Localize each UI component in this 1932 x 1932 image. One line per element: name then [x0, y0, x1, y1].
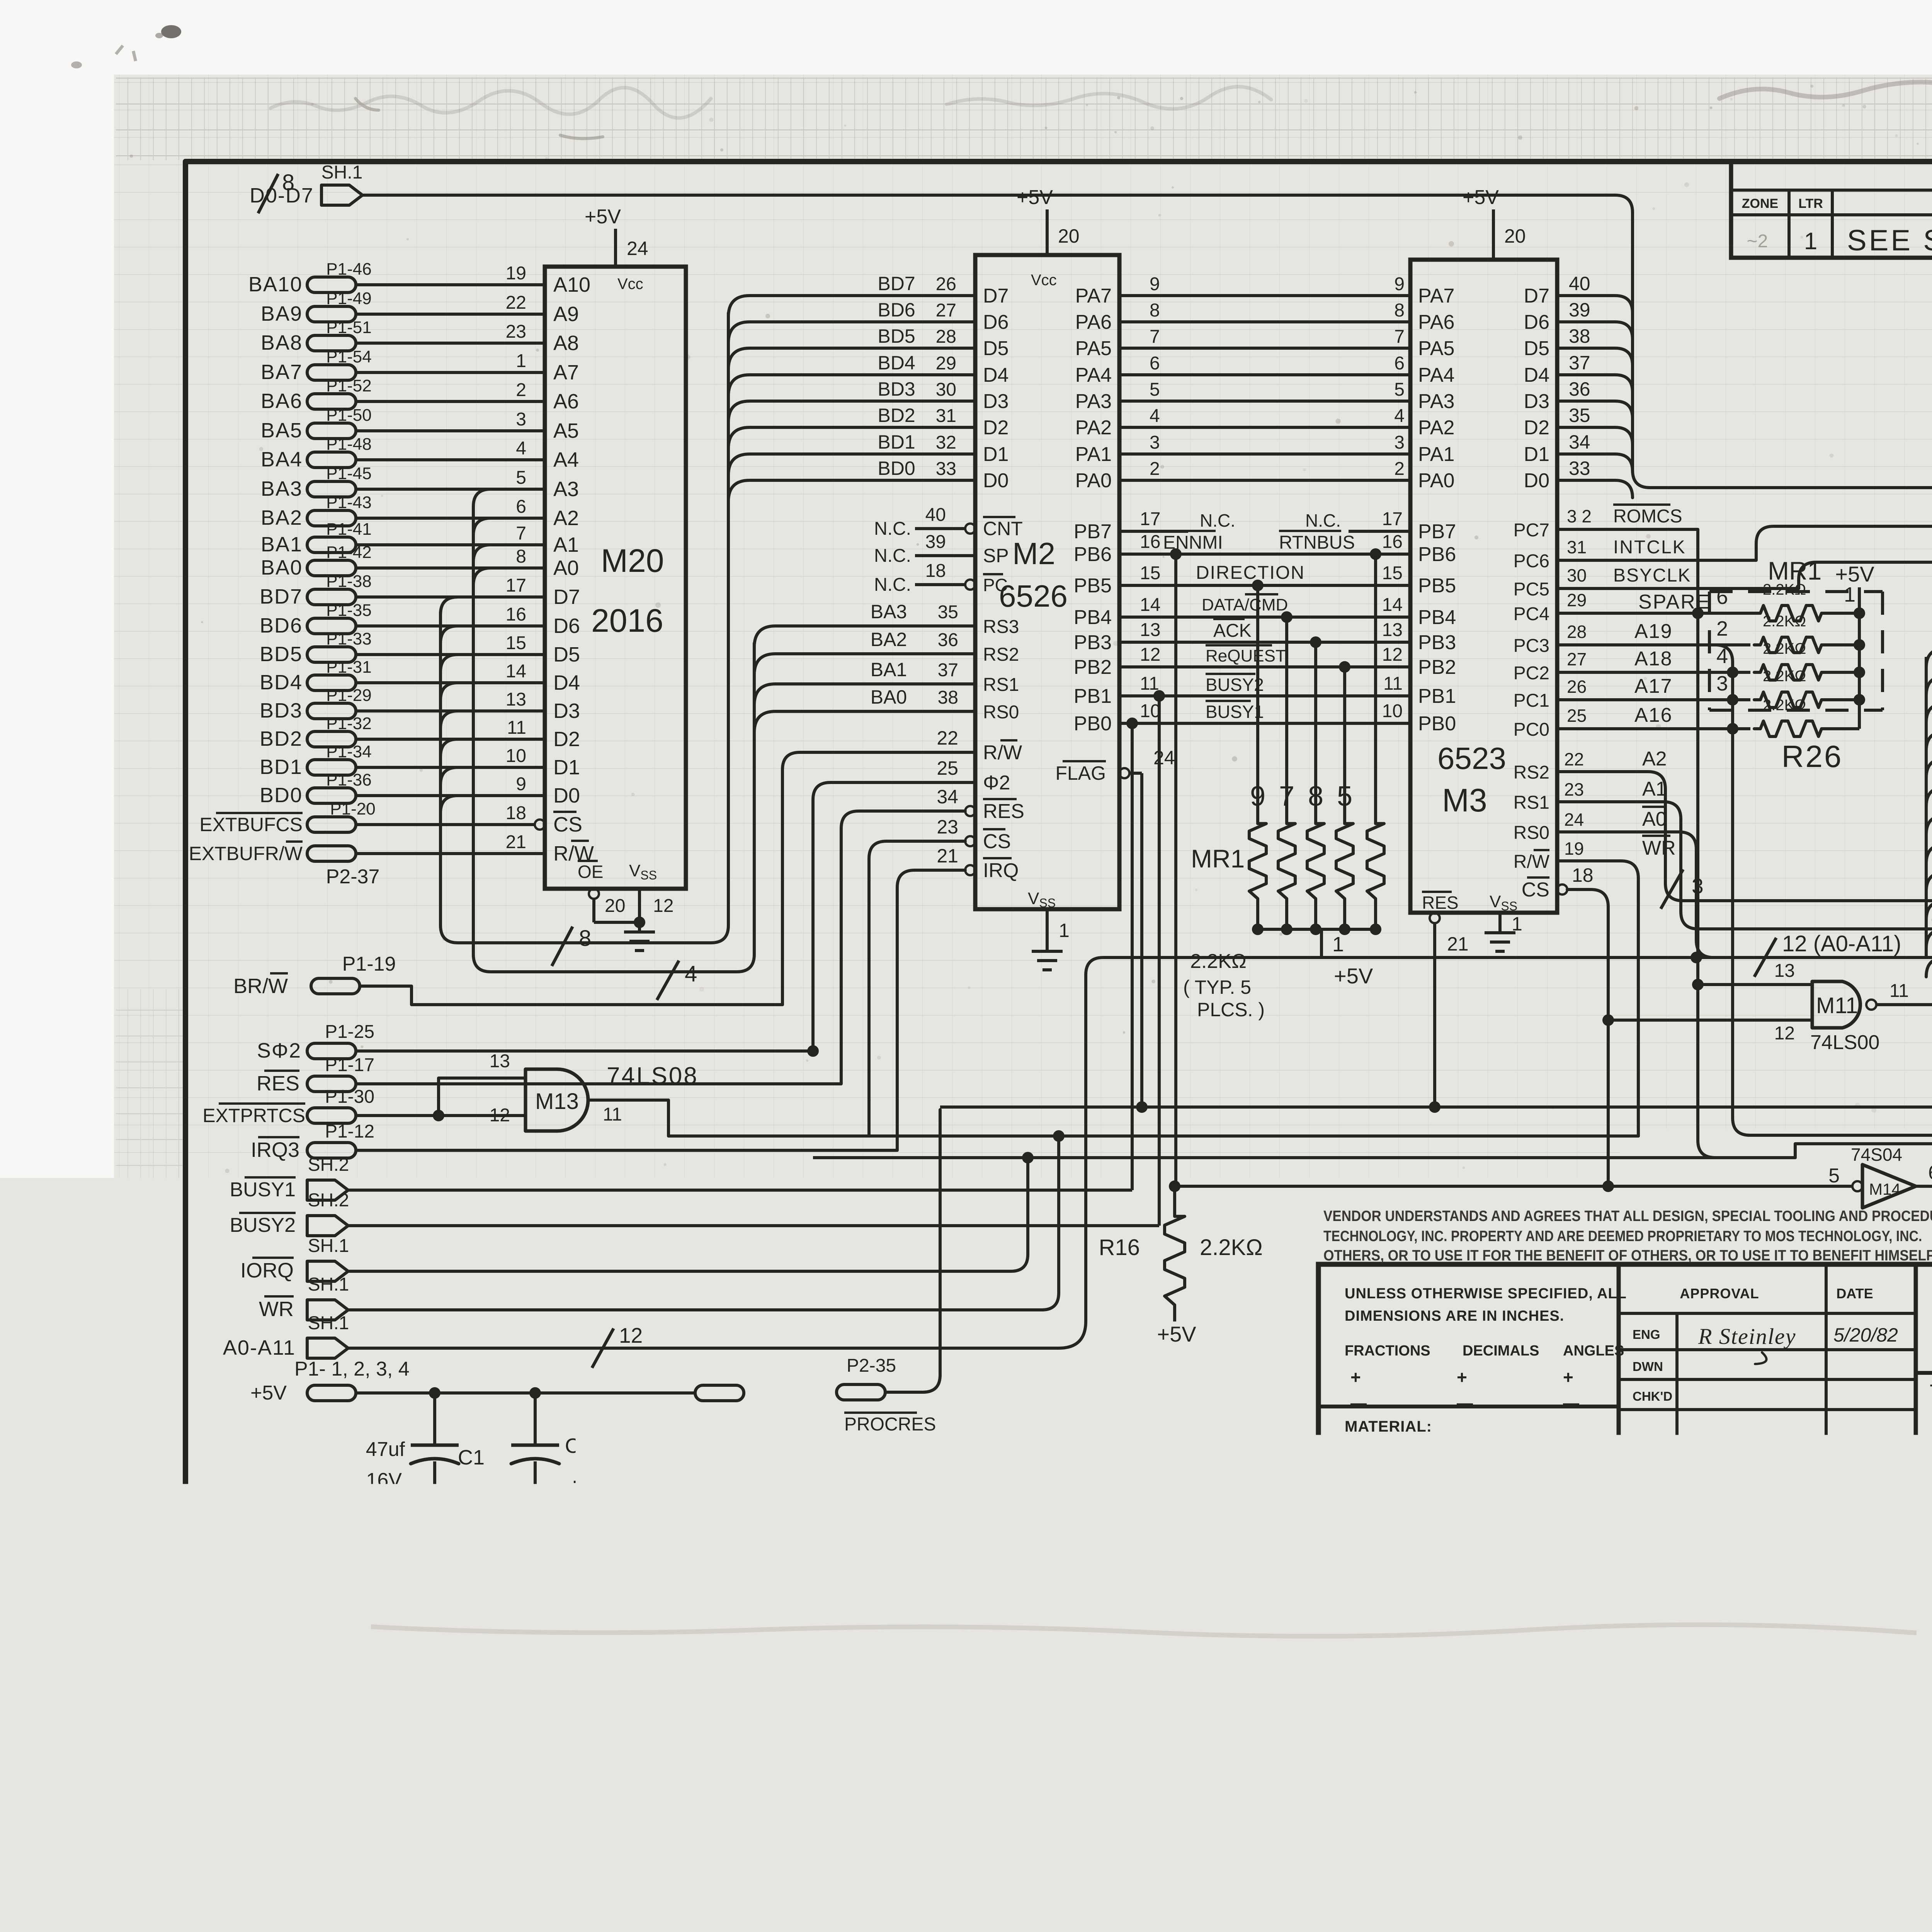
svg-text:~2: ~2 — [1747, 231, 1768, 252]
svg-text:26: 26 — [1567, 677, 1587, 697]
wire BA3 to M20 pin 5 — [356, 468, 545, 489]
svg-text:D2: D2 — [1524, 417, 1549, 439]
svg-text:RS0: RS0 — [983, 702, 1019, 723]
svg-text:PA5: PA5 — [1418, 337, 1454, 360]
size and drawing number cells — [1916, 1471, 1932, 1551]
svg-text:otherwise specified.: otherwise specified. — [1008, 1538, 1207, 1560]
wire A17 from M3 to R26 pack — [1557, 675, 1750, 700]
wire A2 A1 A0 from M3 to M4 address pins — [1557, 748, 1932, 901]
svg-text:16: 16 — [506, 604, 526, 625]
svg-text:1: 1 — [1059, 920, 1070, 941]
svg-text:CHK'D: CHK'D — [1633, 1389, 1672, 1403]
power +5V to M2 pin 20 — [1017, 186, 1080, 255]
svg-text:D7: D7 — [983, 285, 1009, 307]
flag BUSY2 from SH.2 — [230, 1190, 349, 1236]
flag D0-D7 to SH.1 (top left) — [250, 162, 362, 207]
svg-text:13: 13 — [506, 689, 526, 710]
wire to M2 pin 34 — [841, 786, 975, 1084]
svg-text:23: 23 — [506, 321, 526, 342]
svg-text:D3: D3 — [983, 390, 1009, 413]
wire net column to MR1 resistor at x=3255 — [1256, 585, 1259, 816]
svg-text:A1: A1 — [553, 533, 579, 556]
svg-text:A3: A3 — [553, 478, 579, 501]
bus width slash 12 (A0-A11) — [1754, 931, 1901, 977]
svg-text:+5V: +5V — [1334, 964, 1373, 988]
svg-text:5: 5 — [1150, 379, 1160, 400]
svg-text:PB7: PB7 — [1418, 520, 1456, 543]
svg-text:33: 33 — [936, 459, 956, 479]
wire M2 PA2 to M3 PA2 — [1119, 406, 1410, 427]
svg-text:38: 38 — [938, 687, 958, 708]
wire address bus to M4 A5 pin 3 — [1926, 794, 1932, 835]
svg-text:36: 36 — [1569, 378, 1590, 400]
svg-text:PC7: PC7 — [1514, 520, 1549, 541]
wire address bus to M4 A8 pin 23 — [1926, 711, 1932, 751]
svg-text:VENDOR UNDERSTANDS AND AGREES: VENDOR UNDERSTANDS AND AGREES THAT ALL D… — [1323, 1208, 1932, 1225]
svg-text:P1-30: P1-30 — [325, 1087, 374, 1107]
svg-text:27: 27 — [1567, 649, 1587, 669]
svg-text:13: 13 — [1140, 620, 1160, 640]
engineer signature R Steinley 5/20/82 — [1698, 1324, 1898, 1364]
connector P1-34 signal BD1 — [260, 742, 372, 779]
connector P1-17 signal RES — [257, 1055, 374, 1095]
svg-text:9: 9 — [516, 774, 526, 794]
svg-text:SH.2: SH.2 — [308, 1190, 349, 1211]
svg-text:P1-42: P1-42 — [326, 543, 371, 562]
wire BA5 to M20 pin 3 — [356, 409, 545, 431]
scale and sheet cells — [1926, 1551, 1932, 1578]
wire N.C. to M2 pin 39 — [874, 532, 975, 566]
svg-text:P1-48: P1-48 — [326, 435, 371, 454]
svg-text:BD3: BD3 — [878, 378, 915, 400]
svg-text:16V: 16V — [366, 1469, 402, 1492]
svg-text:22: 22 — [1564, 749, 1584, 769]
svg-text:M2: M2 — [1012, 536, 1055, 571]
wire M2 PB5 to M3 PB5 net DIRECTION — [1119, 563, 1410, 585]
wire BD bus loop (8 lines) from connectors up to M2 — [440, 313, 728, 943]
svg-text:6523: 6523 — [1437, 741, 1506, 776]
wire BD1 to M2 D1 pin 32 — [728, 431, 975, 475]
connector P1-42 signal BA0 — [261, 543, 372, 579]
tolerance box: unless otherwise specified — [1318, 1286, 1627, 1435]
svg-text:D3: D3 — [553, 699, 580, 723]
bus width slash 4 on BA loop — [657, 961, 679, 1000]
svg-text:34: 34 — [937, 786, 958, 808]
connector P1-35 signal BD6 — [260, 601, 372, 637]
M3 VSS pin 1 ground — [1500, 913, 1522, 935]
ground symbol below M3 — [1485, 931, 1515, 934]
wire BD7 to M20 pin 17 — [356, 575, 545, 597]
svg-text:3: 3 — [1150, 432, 1160, 453]
svg-text:PB6: PB6 — [1418, 543, 1456, 566]
svg-text:FRACTIONS: FRACTIONS — [1345, 1343, 1430, 1359]
svg-text:11: 11 — [507, 718, 526, 738]
svg-text:D4: D4 — [983, 364, 1009, 386]
svg-text:32: 32 — [936, 432, 956, 453]
svg-text:D4: D4 — [553, 671, 580, 694]
svg-text:GND: GND — [242, 1523, 287, 1546]
inverter M14 74S04 — [1828, 1145, 1932, 1208]
svg-text:39: 39 — [925, 532, 946, 552]
svg-text:N.C.: N.C. — [874, 575, 911, 595]
svg-text:SH.1: SH.1 — [308, 1313, 349, 1333]
svg-text:9: 9 — [1150, 274, 1160, 294]
svg-text:BD1: BD1 — [878, 431, 915, 453]
junction R26 common — [1854, 694, 1865, 706]
wire M11 output pin 11 to M4 CS1 pin 20 — [1876, 981, 1932, 1010]
wire BD7 to M2 D7 pin 26 — [728, 273, 975, 317]
svg-text:4: 4 — [516, 438, 526, 459]
power +5V to M3 pin 20 — [1463, 186, 1526, 260]
wire GND rail — [356, 1532, 695, 1536]
wire INTCLK from M3 PC6 pin 31 — [1557, 526, 1932, 560]
svg-text:P1-31: P1-31 — [326, 658, 371, 677]
wire ENNMI column from M2 PB6 — [1174, 554, 1177, 1186]
svg-text:PB2: PB2 — [1074, 656, 1112, 679]
svg-text:10: 10 — [506, 746, 526, 766]
svg-text:4: 4 — [1150, 406, 1160, 426]
resistor MR1 element 3 2.2K — [1307, 781, 1324, 929]
svg-text:BA3: BA3 — [871, 601, 907, 622]
svg-text:PC2: PC2 — [1514, 663, 1549, 684]
bus width slash 8 top left — [258, 174, 278, 213]
connector P1-48 signal BA4 — [261, 435, 372, 471]
connector P1-52 signal BA6 — [261, 376, 372, 413]
svg-text:35: 35 — [938, 602, 958, 622]
svg-text:R/W: R/W — [983, 742, 1022, 764]
svg-text:1: 1 — [1804, 228, 1817, 255]
svg-text:PA7: PA7 — [1418, 285, 1454, 307]
svg-text:2: 2 — [516, 380, 526, 400]
junction ENNMI column — [1170, 548, 1182, 560]
wire N.C. to M2 pin 18 — [874, 561, 975, 595]
resistor MR1 element 1 2.2K — [1249, 781, 1266, 929]
wire M2 PA5 to M3 PA5 — [1119, 327, 1410, 348]
svg-text:39: 39 — [1569, 299, 1590, 321]
svg-text:SEE SHEET 1.: SEE SHEET 1. — [1847, 224, 1932, 257]
svg-text:PB4: PB4 — [1418, 606, 1456, 629]
wire SPARE from M3 PC4 pin 29 — [1557, 590, 1711, 613]
svg-text:P1-25: P1-25 — [325, 1022, 374, 1042]
svg-text:5: 5 — [1337, 781, 1352, 812]
svg-text:11: 11 — [1889, 981, 1909, 1001]
svg-text:WR: WR — [1642, 837, 1676, 859]
svg-text:DECIMALS: DECIMALS — [1463, 1343, 1539, 1359]
svg-text:BUSY2: BUSY2 — [1206, 675, 1264, 695]
svg-text:D3: D3 — [1524, 390, 1549, 413]
svg-text:PA3: PA3 — [1418, 390, 1454, 413]
svg-text:BA6: BA6 — [261, 389, 303, 413]
svg-text:P1-52: P1-52 — [326, 376, 371, 395]
connector P1-46 signal BA10 — [248, 260, 372, 296]
wire EXTBUFCS to M20 CS pin 18 — [356, 803, 535, 825]
wire address bus to M4 A4 pin 4 — [1926, 823, 1932, 864]
svg-text:TECHNOLOGY, INC. PROPERTY AND: TECHNOLOGY, INC. PROPERTY AND ARE DEEMED… — [1323, 1228, 1932, 1245]
svg-text:P1-36: P1-36 — [326, 770, 371, 789]
svg-text:SCALE: SCALE — [1926, 1556, 1932, 1573]
svg-text:10: 10 — [1382, 701, 1403, 721]
connector P1-54 signal BA7 — [261, 347, 372, 384]
flag IORQ from SH.1 — [240, 1236, 349, 1282]
junction — [1310, 636, 1321, 648]
svg-text:P1-43: P1-43 — [326, 493, 371, 512]
svg-text:C2- C21: C2- C21 — [565, 1434, 643, 1458]
wire address bus to M4 A11 pin 18 — [1926, 628, 1932, 668]
wire BD2 to M2 D2 pin 31 — [728, 405, 975, 449]
M3 RES pin 21 — [1430, 913, 1469, 1110]
svg-text:BA2: BA2 — [261, 506, 303, 529]
svg-text:13: 13 — [490, 1051, 510, 1071]
svg-text:N.C.: N.C. — [874, 546, 911, 566]
wire M2 PB7 to M3 PB7 — [1119, 509, 1410, 531]
svg-text:26: 26 — [936, 274, 956, 294]
svg-text:7: 7 — [1279, 781, 1294, 812]
svg-text:3: 3 — [516, 409, 526, 430]
svg-text:RS2: RS2 — [1514, 762, 1549, 783]
svg-text:6: 6 — [1150, 353, 1160, 374]
svg-text:2.2KΩ: 2.2KΩ — [1763, 668, 1806, 685]
svg-text:D1: D1 — [553, 756, 580, 779]
svg-text:40: 40 — [925, 505, 946, 525]
svg-text:PB5: PB5 — [1074, 575, 1112, 597]
svg-text:Φ2: Φ2 — [983, 772, 1010, 794]
svg-text:P1-38: P1-38 — [326, 572, 371, 591]
svg-text:P1-34: P1-34 — [326, 742, 371, 761]
svg-text:PC0: PC0 — [1514, 719, 1549, 740]
svg-text:.01 uf: .01 uf — [572, 1464, 624, 1488]
wire BA1 to M20 pin 7 — [356, 523, 545, 545]
date stamp APR 6 1983 — [1440, 1718, 1859, 1772]
vendor proprietary note text — [1323, 1208, 1932, 1264]
wire M2 PB1 to M3 PB1 net BUSY2 — [1119, 673, 1410, 696]
junction SPARE/ROMCS column — [1692, 607, 1704, 619]
svg-text:28: 28 — [936, 327, 956, 347]
svg-text:A16: A16 — [1634, 704, 1673, 726]
svg-text:P1-17: P1-17 — [325, 1055, 374, 1075]
junction ROMCS to M11 — [1692, 979, 1704, 990]
wire WR from M3 pin 19 down to WR flag line — [1557, 836, 1676, 1136]
wire M13 input pin 13 — [439, 1051, 526, 1116]
svg-text:11: 11 — [1140, 673, 1159, 694]
wire to M2 pin 25 — [813, 757, 975, 1051]
IC M3 6523 — [1410, 260, 1557, 913]
M20 OE pin 20 and VSS pin 12 to ground — [589, 889, 673, 932]
svg-text:18: 18 — [1572, 864, 1594, 886]
wire net column to MR1 resistor at x=3330 — [1285, 617, 1288, 816]
svg-text:17: 17 — [1382, 509, 1403, 529]
svg-text:12: 12 — [1774, 1023, 1795, 1044]
wire net column to MR1 resistor at x=3480 — [1343, 667, 1346, 816]
svg-text:+5V: +5V — [250, 1382, 287, 1404]
svg-text:PA6: PA6 — [1418, 311, 1454, 333]
svg-text:30: 30 — [936, 379, 956, 400]
svg-text:8: 8 — [1394, 300, 1405, 321]
svg-text:24: 24 — [627, 238, 648, 259]
connector P1-19 signal BR/W — [233, 953, 396, 998]
svg-text:BA1: BA1 — [261, 533, 303, 556]
junction R26 common — [1854, 667, 1865, 678]
wire BD6 to M20 pin 16 — [356, 604, 545, 626]
svg-text:2.2KΩ: 2.2KΩ — [1763, 613, 1806, 630]
connector P2-37 signal EXTBUFR/W — [189, 842, 380, 888]
svg-text:10: 10 — [1140, 701, 1160, 721]
svg-text:20: 20 — [1058, 225, 1080, 247]
svg-text:18: 18 — [506, 803, 526, 823]
svg-text:P1-50: P1-50 — [326, 406, 371, 425]
svg-text:RES: RES — [257, 1072, 299, 1095]
svg-text:SP: SP — [983, 545, 1009, 566]
junction FLAG on PROCRES line — [1136, 1101, 1148, 1113]
svg-text:Vcc: Vcc — [617, 276, 643, 293]
svg-text:A0: A0 — [1642, 808, 1667, 830]
M3 CS pin 18 wire down to IORQ line — [1557, 864, 1614, 1192]
svg-text:PB6: PB6 — [1074, 543, 1112, 566]
svg-text:D5: D5 — [553, 643, 580, 666]
wire N.C. to M2 pin 40 — [874, 505, 975, 539]
wire WR line — [348, 1136, 1059, 1310]
wire M11 input pin 13 from ROMCS column — [1698, 961, 1812, 985]
svg-text:PA0: PA0 — [1075, 469, 1112, 492]
svg-text:RS3: RS3 — [983, 617, 1019, 637]
junction — [1339, 661, 1350, 673]
wire A18 from M3 to R26 pack — [1557, 648, 1750, 672]
svg-text:BD5: BD5 — [260, 643, 303, 666]
wire M11 input pin 12 — [1608, 1020, 1812, 1044]
junction — [1281, 611, 1293, 623]
svg-text:R16: R16 — [1099, 1235, 1140, 1260]
revision entry row: 1 SEE SHEET 1 — [1747, 224, 1932, 257]
wire BD5 to M2 D5 pin 28 — [728, 325, 975, 369]
svg-text:DIRECTION: DIRECTION — [1196, 563, 1305, 583]
svg-text:PA7: PA7 — [1075, 285, 1112, 307]
svg-text:P1-49: P1-49 — [326, 289, 371, 308]
wire to M2 pin 21 — [897, 845, 975, 1150]
flag WR from SH.1 — [259, 1274, 349, 1321]
svg-text:RES: RES — [983, 800, 1024, 823]
svg-text:23: 23 — [1564, 779, 1584, 799]
svg-text:8: 8 — [516, 546, 526, 567]
wire BD5 to M20 pin 15 — [356, 633, 545, 655]
wire BA10 to M20 pin 19 — [356, 263, 545, 285]
svg-text:PA2: PA2 — [1075, 417, 1112, 439]
svg-text:27: 27 — [936, 300, 956, 321]
connector P1-41 signal BA1 — [261, 520, 372, 556]
junction C1 on +5V rail — [429, 1387, 440, 1399]
svg-text:14: 14 — [506, 661, 526, 682]
svg-text:+5V: +5V — [1835, 562, 1874, 586]
svg-text:15: 15 — [506, 633, 526, 653]
svg-text:R/W: R/W — [1514, 852, 1550, 872]
wire BD3 to M2 D3 pin 30 — [728, 378, 975, 422]
svg-text:N.C.: N.C. — [1305, 510, 1341, 531]
svg-text:8: 8 — [282, 170, 294, 195]
resistor R26 element 5 2.2K — [1754, 697, 1859, 736]
AND gate M13 74LS08 — [526, 1063, 699, 1131]
svg-text:12 (A0-A11): 12 (A0-A11) — [1782, 931, 1901, 956]
svg-text:IORQ: IORQ — [240, 1259, 294, 1282]
svg-text:22: 22 — [937, 727, 958, 749]
svg-text:BA10: BA10 — [248, 273, 303, 296]
svg-text:PB4: PB4 — [1074, 606, 1112, 629]
wire BA6 to M20 pin 2 — [356, 380, 545, 401]
svg-text:8: 8 — [1150, 300, 1160, 321]
wire R26 common rail — [1858, 613, 1861, 729]
svg-text:+5V: +5V — [585, 206, 621, 228]
svg-text:74LS08: 74LS08 — [607, 1063, 699, 1089]
svg-text:IRQ: IRQ — [983, 859, 1019, 882]
svg-text:D2: D2 — [553, 728, 580, 751]
wire BD1 to M20 pin 10 — [356, 746, 545, 767]
M2 FLAG pin 24 wire — [1119, 747, 1175, 1107]
wire BA0 to M20 pin 8 — [356, 546, 545, 568]
junction M20 ground node — [634, 917, 645, 928]
wire +5V rail — [356, 1391, 695, 1395]
power +5V to M20 pin 24 — [585, 206, 648, 267]
svg-text:33: 33 — [1569, 457, 1590, 479]
wire address bus to M4 A1 pin 7 — [1926, 908, 1932, 948]
svg-text:BD0: BD0 — [260, 784, 303, 807]
svg-text:APPROVED: APPROVED — [1628, 1486, 1706, 1502]
connector +5V rail right pill — [695, 1385, 744, 1401]
svg-text:RS1: RS1 — [1514, 793, 1549, 813]
connector P1-12 signal IRQ3 — [251, 1121, 374, 1162]
wire address bus to M4 A10 pin 19 — [1926, 655, 1932, 696]
power rail +5V connector P1-1,2,3,4 — [250, 1358, 410, 1404]
wire A0-A11 bus line — [348, 957, 1932, 1348]
svg-text:3: 3 — [1716, 672, 1728, 695]
junction pin12 line — [1602, 1014, 1614, 1026]
svg-text:12: 12 — [653, 896, 673, 916]
svg-text:CS: CS — [983, 830, 1011, 853]
wire BD4 to M2 D4 pin 29 — [728, 352, 975, 396]
wire EXTBUFR/W to M20 pin 21 — [356, 832, 545, 854]
connector P1-43 signal BA2 — [261, 493, 372, 529]
connector P1-51 signal BA8 — [261, 318, 372, 354]
connector P1-29 signal BD3 — [260, 686, 372, 722]
svg-text:R26: R26 — [1782, 739, 1843, 774]
junction — [1370, 548, 1381, 560]
svg-text:24: 24 — [1564, 810, 1584, 830]
connector P2-35 signal PROCRES — [837, 1355, 936, 1435]
svg-text:PA4: PA4 — [1075, 364, 1112, 386]
svg-text:29: 29 — [936, 353, 956, 374]
svg-text:PC6: PC6 — [1514, 551, 1549, 571]
svg-text:BA3: BA3 — [261, 477, 303, 500]
connector P1-25 signal S-phi-2 — [257, 1022, 374, 1062]
svg-text:SH.1: SH.1 — [308, 1274, 349, 1295]
svg-text:25: 25 — [937, 757, 958, 779]
junction C2 on +5V rail — [529, 1387, 541, 1399]
svg-text:BA8: BA8 — [261, 331, 303, 354]
svg-text:MR1: MR1 — [1191, 844, 1245, 873]
resistor R16 2.2K — [1099, 1180, 1263, 1321]
svg-text:UNLESS OTHERWISE SPECIFIED, AL: UNLESS OTHERWISE SPECIFIED, ALL — [1345, 1286, 1627, 1302]
svg-text:SH.1: SH.1 — [308, 1236, 349, 1256]
svg-text:RS1: RS1 — [983, 675, 1019, 695]
svg-text:7: 7 — [516, 523, 526, 544]
svg-text:8: 8 — [1308, 781, 1323, 812]
svg-text:ReQUEST: ReQUEST — [1206, 646, 1286, 665]
junction IORQ to node — [1022, 1152, 1034, 1163]
svg-text:A5: A5 — [553, 419, 579, 442]
svg-text:+: + — [1563, 1367, 1573, 1387]
title cell — [1916, 1373, 1932, 1471]
svg-text:APPROVAL: APPROVAL — [1680, 1286, 1759, 1301]
svg-text:BD4: BD4 — [878, 352, 915, 374]
svg-text:DATE: DATE — [1836, 1286, 1873, 1301]
svg-text:PB3: PB3 — [1418, 631, 1456, 654]
capacitor C1 47uf 16V — [366, 1393, 485, 1534]
